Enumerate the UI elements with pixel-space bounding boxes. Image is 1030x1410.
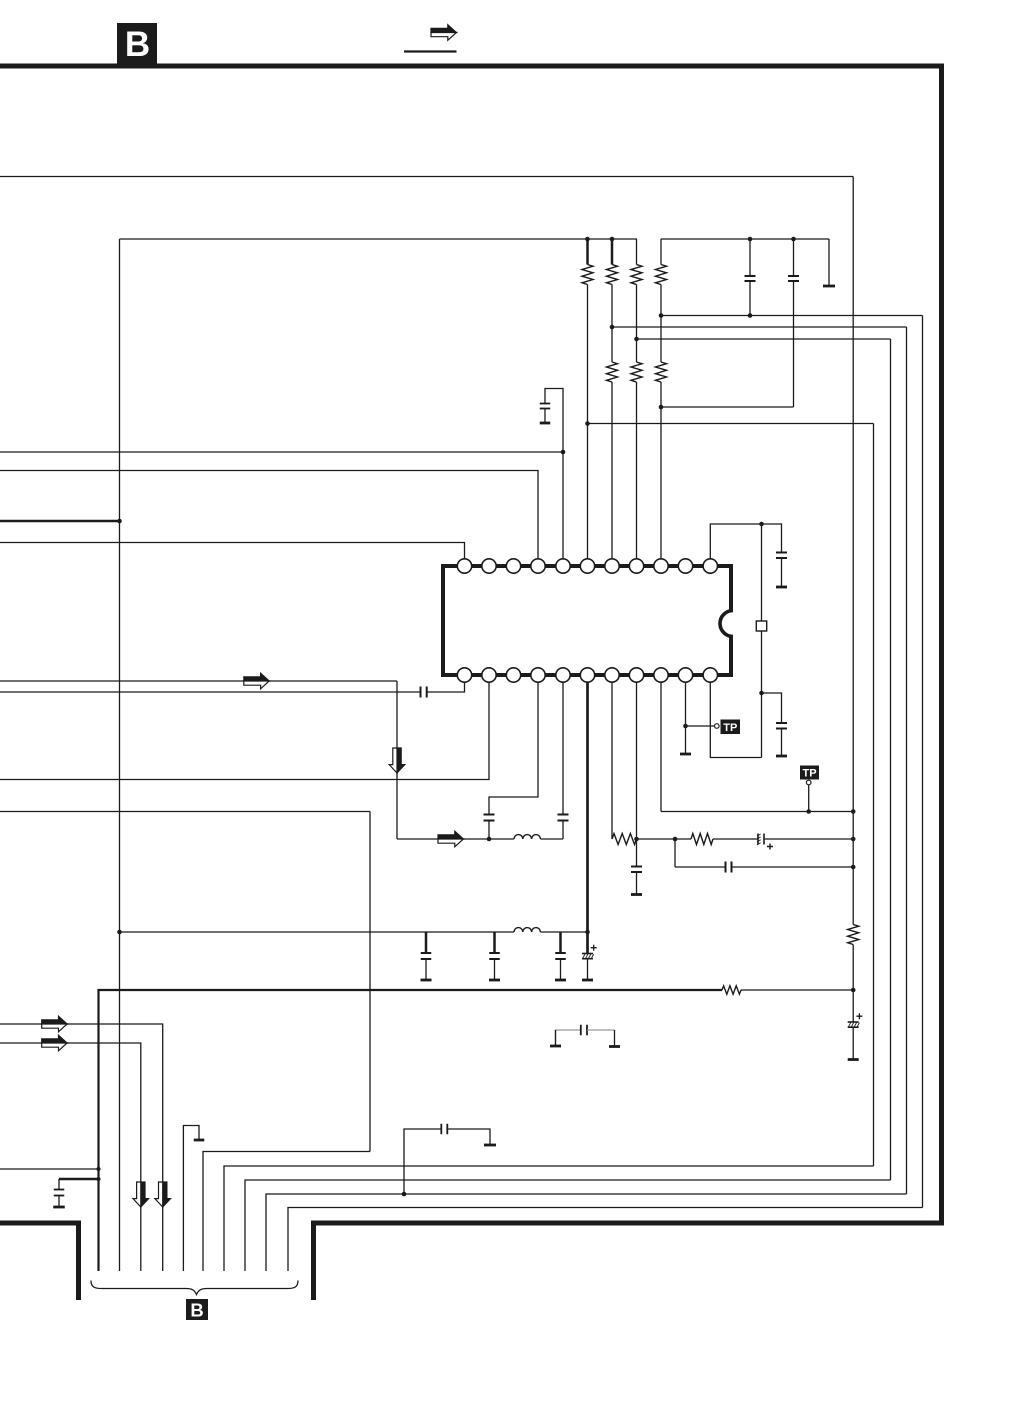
wire right column drop x=890.5 — [890, 339, 892, 1180]
IC U1 index notch on right edge — [720, 610, 747, 637]
wire R10 to junction — [852, 945, 854, 1023]
wire drop x=370 — [369, 812, 371, 1152]
test point TP2 wire — [808, 785, 810, 812]
resistor R5 bottom lead to IC pin7 top — [611, 382, 613, 559]
junction dot 661/407 — [659, 405, 664, 410]
IC U1 pin 10 circle (top row) — [678, 559, 692, 573]
capacitor C8 (x=563) plates — [558, 814, 569, 816]
svg-text:B: B — [125, 25, 150, 64]
page border bottom-left segment — [0, 1223, 79, 1300]
signal-flow down arrow on x=140.8 wire — [141, 1182, 149, 1207]
junction dot 685.5/726 — [683, 724, 688, 729]
capacitor C5 (x=781.5) plates — [776, 722, 787, 724]
capacitor C18 branch wire y=1129 — [404, 1129, 441, 1194]
capacitor C16 bottom lead and terminal bar — [560, 959, 562, 979]
junction dot 853/811.5 — [851, 809, 856, 814]
wire pin5 bottom drop — [562, 682, 564, 814]
IC U1 pin 5 circle (top row) — [556, 559, 570, 573]
wire y=692 from left edge to capacitor C6 — [0, 691, 420, 693]
IC U1 pin 8 circle (top row) — [629, 559, 643, 573]
junction dot 587.5/423.5 — [585, 421, 590, 426]
polarized capacitor C13 (x=853) — [848, 1021, 859, 1023]
resistor R2 body — [607, 265, 618, 285]
capacitor C15 plates — [489, 952, 500, 954]
capacitor C16 plates — [555, 952, 566, 954]
junction dot 98.5/1169 — [97, 1167, 101, 1171]
resistor R6 bottom lead to IC pin8 top — [636, 382, 638, 559]
IC U1 pin 19 circle (bottom row) — [531, 668, 545, 682]
wire pin11 bottom to crystal loop — [710, 682, 761, 757]
test point TP1 terminal circle — [715, 724, 720, 729]
junction dot 636.5/839 — [634, 837, 639, 842]
capacitor C3 plates — [540, 403, 551, 405]
capacitor C14 (x=426) thick stub — [425, 932, 428, 953]
wire y=1194 from x=906.5 to comb — [266, 1194, 907, 1271]
signal-flow arrow (top header) — [431, 25, 456, 33]
svg-text:TP: TP — [802, 768, 816, 780]
resistor R1 body — [582, 265, 593, 285]
wire right column drop x=906.5 — [906, 327, 908, 1194]
signal-flow down arrow on x=397 wire — [397, 748, 405, 773]
capacitor C1 bottom lead — [749, 281, 751, 316]
wire y=681 from left edge — [0, 680, 397, 682]
IC U1 pin 13 circle (bottom row) — [678, 668, 692, 682]
junction dot 98.5/1179 — [97, 1177, 101, 1181]
wire R11 to x=853 — [741, 989, 853, 991]
capacitor C19 (x=59) top lead — [58, 1179, 60, 1190]
junction dot 675/839 — [673, 837, 678, 842]
cable brace (bottom) — [91, 1281, 298, 1295]
IC U1 pin 7 circle (top row) — [605, 559, 619, 573]
capacitor C14 bottom lead and terminal bar — [425, 959, 427, 979]
junction dot 761.5/693 — [759, 691, 764, 696]
wire drop x=397 — [396, 681, 398, 839]
capacitor C3 branch top wire y=388.5 — [545, 389, 563, 559]
IC U1 pin 3 circle (top row) — [506, 559, 520, 573]
wire right column drop x=922.5 — [922, 316, 924, 1208]
capacitor C17 plates — [580, 1025, 582, 1036]
terminal stub at x=829 — [828, 239, 830, 285]
junction dot 612/327 — [610, 325, 615, 330]
wire C12 to x=853 — [732, 866, 854, 868]
polarized capacitor C11 (series, x=760-768) — [757, 834, 759, 845]
resistor R8 body (horizontal) — [612, 834, 637, 845]
junction dot 793/239 — [791, 237, 796, 242]
inductor L2 body — [514, 928, 540, 932]
junction dot 404/1194 — [402, 1192, 407, 1197]
wire y=693 to C5 — [762, 693, 782, 723]
wire y=1169 from left edge — [0, 1168, 99, 1170]
junction dot 489/839 — [487, 837, 492, 842]
capacitor C16 (x=560.5) thick stub — [559, 932, 562, 953]
wire y=811.5 from pin9 to x=853 — [661, 811, 853, 813]
wire C6 to pin1 bottom — [427, 682, 465, 692]
wire y=452 from left edge to pin5 line — [0, 451, 563, 453]
capacitor C12 (series) plates — [725, 862, 727, 873]
wire L2 to pin6 line — [540, 931, 587, 933]
svg-text:TP: TP — [723, 722, 737, 734]
wire y=839 left segment with inductor L1 — [397, 838, 514, 840]
capacitor C1 (x=750) top lead — [749, 239, 751, 276]
capacitor C10 bottom lead and terminal bar — [636, 872, 638, 894]
wire y=315.5 bus — [661, 315, 923, 317]
IC U1 pin 17 circle (bottom row) — [580, 668, 594, 682]
capacitor C19 plates — [54, 1189, 65, 1191]
resistor R4 lead down — [660, 285, 662, 363]
capacitor C10 (x=636.5) plates — [631, 866, 642, 868]
capacitor C9 bottom lead and terminal bar — [587, 959, 589, 979]
junction dot 587.5/932 — [585, 930, 590, 935]
underline (top header) — [404, 50, 457, 52]
capacitor C7 bottom lead — [488, 821, 490, 840]
wire supply rail (y=239) right segment — [661, 238, 829, 240]
wire pin9 bottom drop — [660, 682, 662, 811]
wire y=1207.5 from x=922.5 to comb — [288, 1208, 923, 1272]
test point TP1 label box — [721, 720, 741, 735]
wire C11 to x=853 — [764, 838, 853, 840]
IC U1 pin 15 circle (bottom row) — [629, 668, 643, 682]
resistor R7 bottom lead to IC pin9 top — [660, 382, 662, 559]
wire pin10 bottom stub — [685, 682, 687, 753]
capacitor C4 bottom lead and terminal bar — [781, 558, 783, 586]
test point TP2 terminal circle — [806, 780, 811, 785]
IC U1 pin 18 circle (bottom row) — [556, 668, 570, 682]
capacitor C15 bottom lead and terminal bar — [494, 959, 496, 979]
signal-flow arrow on y=1024 wire — [42, 1016, 67, 1024]
wire y=932 from x=119.5 — [120, 931, 515, 933]
junction dot 853/867 — [851, 865, 856, 870]
polarized capacitor C9 (x=587.5) — [582, 953, 593, 955]
capacitor C17 right terminal — [587, 1029, 615, 1031]
resistor R11 body (horizontal, x=722-741) — [722, 986, 741, 994]
resistor R3 (x=636.5) top lead — [636, 239, 638, 265]
crystal X1 box — [756, 621, 766, 631]
capacitor C2 plates — [788, 275, 799, 277]
wire y=1166 from x=873.5 to comb — [224, 1166, 874, 1271]
resistor R3 body — [631, 265, 642, 285]
resistor R6 (x=636.5) row2 body — [631, 362, 642, 382]
IC U1 pin 4 circle (top row) — [531, 559, 545, 573]
IC U1 pin 12 circle (bottom row) — [703, 668, 717, 682]
IC U1 pin 11 circle (top row) — [703, 559, 717, 573]
junction dot 809/811.5 — [806, 809, 811, 814]
resistor R1 (x=587.5) top lead thick — [586, 239, 589, 265]
wire pin4 bottom drop — [489, 682, 538, 814]
capacitor C8 bottom lead — [562, 821, 564, 840]
wire y=779.5 from left edge to pin2 bottom — [0, 682, 489, 779]
IC U1 body — [443, 566, 731, 675]
junction dot 612/239 — [610, 237, 615, 242]
capacitor C18 right lead and terminal bar — [448, 1129, 491, 1144]
IC U1 pin 1 circle (top row) — [457, 559, 471, 573]
capacitor C4 (x=781.5) plates — [776, 552, 787, 554]
capacitor C7 (x=489) plates — [484, 814, 495, 816]
signal-flow arrow on y=839 wire — [438, 831, 463, 839]
resistor R7 (x=661) row2 body — [656, 362, 667, 382]
wire x=675 drop to y=867 — [674, 839, 676, 867]
IC U1 pin 6 circle (top row) — [580, 559, 594, 573]
capacitor C3 bottom lead and terminal bar — [544, 409, 546, 423]
wire y=542.5 from left edge to IC pin1 top — [0, 543, 465, 559]
wire L1 to x=563 — [540, 838, 563, 840]
test point TP1 wire — [686, 725, 716, 727]
capacitor C19 bottom lead and terminal bar — [58, 1196, 60, 1207]
capacitor C15 (x=494.5) thick stub — [493, 932, 496, 953]
resistor R10 body (x=853) — [848, 925, 859, 945]
junction dot 119.5/932 — [117, 930, 122, 935]
wire y=339 bus — [637, 338, 891, 340]
wire y=1179 thick stub — [59, 1178, 99, 1181]
junction dot 563/452 — [561, 450, 566, 455]
wire pin11 top to crystal loop (y=524) — [710, 524, 781, 559]
junction dot 661/315.5 — [659, 313, 664, 318]
wire right column drop x=853 — [852, 177, 854, 925]
IC U1 pin 2 circle (top row) — [482, 559, 496, 573]
stub with terminal bar (x=183.4) — [183, 1126, 199, 1272]
junction dot 853/839 — [851, 837, 856, 842]
junction dot 750/315.5 — [748, 313, 753, 318]
wire y=1024 from left edge — [0, 1024, 163, 1271]
svg-text:B: B — [190, 1300, 203, 1321]
signal-flow arrow on y=681 wire — [244, 673, 269, 681]
wire y=867 from x=675 to capacitor C12 — [675, 866, 726, 868]
resistor R3 lead down — [636, 285, 638, 363]
capacitor C2 (x=793.5) top lead — [793, 239, 795, 276]
wire y=1043 from left edge — [0, 1043, 141, 1271]
resistor R1 bottom lead to IC pin6 top — [587, 285, 589, 559]
capacitor C14 plates — [421, 952, 432, 954]
junction dot 636.5/339 — [634, 337, 639, 342]
wire R9 to polarized capacitor C11 — [713, 838, 758, 840]
junction dot 750/239 — [748, 237, 753, 242]
junction dot 119.5/521 — [117, 519, 122, 524]
junction dot 588/239 — [585, 237, 590, 242]
resistor R2 (x=612) top lead thick — [611, 239, 614, 265]
wire supply rail (y=239) left segment from x=119 — [120, 238, 638, 240]
IC U1 pin 16 circle (bottom row) — [605, 668, 619, 682]
IC U1 pin 9 circle (top row) — [654, 559, 668, 573]
capacitor C13 bottom lead and terminal bar — [852, 1028, 854, 1059]
capacitor C5 bottom lead and terminal bar — [781, 729, 783, 756]
resistor R9 body (horizontal) — [691, 834, 713, 845]
wire y=521 thick stub from left edge — [0, 520, 120, 523]
IC U1 pin 22 circle (bottom row) — [457, 668, 471, 682]
junction dot 761.5/524 — [759, 522, 764, 527]
IC U1 pin 14 circle (bottom row) — [654, 668, 668, 682]
wire y=1180 from x=890.5 to comb — [245, 1180, 891, 1271]
wire y=990 thick segment — [99, 990, 723, 1271]
resistor R4 (x=661) top lead — [660, 239, 662, 265]
capacitor C1 plates — [745, 275, 756, 277]
wire corner x=119 riser — [119, 239, 121, 1271]
wire y=1151.5 from x=370 to comb — [203, 1152, 370, 1272]
wire y=811.5 from left edge — [0, 811, 370, 813]
capacitor C2 bottom lead down to y=407 wire — [793, 281, 795, 407]
capacitor C6 (series) plates — [420, 687, 422, 698]
wire pin7 bottom drop — [611, 682, 613, 839]
wire net A (y=176) to right column — [0, 176, 853, 178]
sheet label B (top) — [117, 23, 157, 64]
IC U1 pin 20 circle (bottom row) — [506, 668, 520, 682]
capacitor C18 plates — [440, 1124, 442, 1135]
wire y=407 from R7 to C2 — [661, 406, 794, 408]
IC U1 pin 21 circle (bottom row) — [482, 668, 496, 682]
resistor R2 lead down to junction — [611, 285, 613, 363]
capacitor C17 left terminal — [556, 1030, 581, 1045]
junction dot 853/990 — [851, 988, 856, 993]
resistor R4 body — [656, 265, 667, 285]
resistor R5 (x=612) row2 body — [607, 362, 618, 382]
test point TP2 label box — [800, 766, 819, 780]
wire y=470.5 from left edge to IC pin4 top — [0, 471, 538, 559]
wire pin8 bottom drop — [636, 682, 638, 866]
signal-flow arrow on y=1043 wire — [42, 1035, 67, 1043]
wire y=839 from R8 junction to x=675 — [637, 838, 692, 840]
sheet label B (bottom) — [186, 1299, 208, 1320]
wire pin6 bottom thick drop — [586, 682, 589, 953]
wire y=327 bus — [612, 326, 907, 328]
crystal X1 vertical wire — [761, 524, 763, 758]
inductor L1 body — [514, 835, 540, 839]
signal-flow down arrow on x=162.7 wire — [163, 1182, 171, 1207]
wire right column drop x=873.5 — [873, 424, 875, 1167]
wire y=423.5 bus from pin6 line — [588, 423, 874, 425]
